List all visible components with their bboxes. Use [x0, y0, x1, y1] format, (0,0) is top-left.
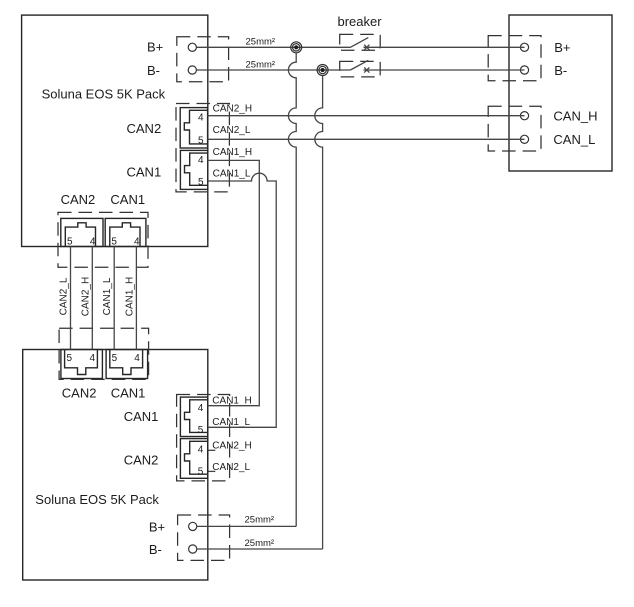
wire B+ pack1 to breaker: [196, 46, 350, 48]
wire B- vertical pack2 with hops: [315, 75, 323, 549]
svg-text:25mm²: 25mm²: [245, 538, 275, 549]
pack2 B+/B- dashed box: [178, 515, 230, 560]
pack1 bottom jack CAN2 outer: [61, 218, 103, 246]
wire CAN_H pack1 to inverter: [208, 115, 525, 117]
svg-text:CAN2: CAN2: [61, 192, 96, 207]
svg-text:CAN1_H: CAN1_H: [124, 277, 135, 316]
breaker switch S2 blade: [350, 60, 368, 70]
pack2 top jack CAN1 outer: [106, 350, 148, 379]
svg-text:CAN2_L: CAN2_L: [212, 462, 250, 473]
svg-text:25mm²: 25mm²: [246, 36, 276, 47]
pack2 CAN2 jack inner: [185, 441, 208, 474]
pack2 top jack CAN2 outer: [61, 350, 103, 379]
svg-text:Soluna EOS 5K Pack: Soluna EOS 5K Pack: [42, 87, 166, 102]
svg-text:4: 4: [198, 403, 204, 414]
pack1 CAN2 jack J1 inner: [184, 110, 207, 144]
wire CAN2_L stub pack2: [208, 470, 215, 472]
svg-text:CAN1: CAN1: [124, 409, 159, 424]
svg-text:5: 5: [198, 177, 204, 188]
svg-text:CAN2: CAN2: [124, 453, 159, 468]
svg-text:4: 4: [198, 155, 204, 166]
svg-text:CAN1_H: CAN1_H: [213, 147, 252, 158]
svg-text:4: 4: [134, 237, 140, 248]
wire CAN1_L link pack1 to pack2 with hop: [208, 173, 277, 427]
wire B+ vertical pack2 with hops: [288, 53, 296, 527]
svg-text:5: 5: [198, 135, 204, 146]
svg-text:B-: B-: [149, 542, 162, 557]
svg-text:CAN1_L: CAN1_L: [212, 417, 250, 428]
wire CAN2_H stub pack2: [208, 449, 215, 451]
inverter B- terminal: [520, 66, 528, 74]
svg-text:B+: B+: [149, 519, 165, 534]
svg-text:5: 5: [67, 237, 73, 248]
pack2 CAN1 jack inner: [185, 400, 208, 433]
svg-text:CAN1_L: CAN1_L: [102, 277, 113, 315]
inverter B+/B- dashed box: [488, 36, 541, 81]
wire B- pack2 horizontal: [197, 548, 323, 550]
svg-text:25mm²: 25mm²: [245, 515, 275, 526]
pack1 CAN1 jack J2 inner: [185, 153, 208, 185]
svg-text:B-: B-: [554, 63, 567, 78]
svg-text:B+: B+: [554, 40, 570, 55]
pack1 bottom jack CAN1 outer: [105, 218, 146, 246]
svg-text:5: 5: [111, 237, 117, 248]
pack2 CAN jacks dashed box: [177, 395, 230, 481]
svg-text:CAN2_H: CAN2_H: [80, 277, 91, 316]
wire B- pack1 to breaker: [196, 69, 350, 71]
svg-text:CAN1: CAN1: [127, 164, 162, 179]
pack1 B- terminal: [188, 66, 196, 74]
svg-text:4: 4: [134, 353, 140, 364]
inverter box: [509, 15, 612, 171]
svg-text:breaker: breaker: [338, 14, 383, 29]
wire B+ pack2 horizontal: [197, 525, 296, 527]
wire CAN_L pack1 to inverter: [208, 138, 525, 140]
breaker switch S1 x-contact: [364, 45, 369, 50]
wire B- breaker to inverter: [364, 69, 525, 71]
svg-text:CAN2_L: CAN2_L: [213, 125, 251, 136]
junction J-B+ connector bullseye: [291, 42, 302, 53]
wire CAN1_H link pack1 to pack2: [208, 160, 260, 405]
pack2 top jack CAN1 inner: [110, 350, 143, 375]
svg-text:CAN_L: CAN_L: [553, 132, 595, 147]
svg-text:CAN2_L: CAN2_L: [59, 277, 70, 315]
pack1 bottom jack CAN1 inner: [110, 223, 140, 247]
svg-text:5: 5: [67, 353, 73, 364]
pack2 CAN1 jack outer: [180, 397, 207, 436]
pack1 CAN jacks dashed box: [176, 104, 229, 192]
pack1 bottom jack CAN2 inner: [65, 223, 95, 247]
pack2 CAN2 jack outer: [180, 439, 207, 479]
breaker switch S1 blade: [350, 38, 368, 48]
svg-text:B+: B+: [147, 40, 163, 55]
svg-text:CAN2_H: CAN2_H: [212, 440, 251, 451]
pack1 bottom jacks dashed box: [58, 212, 148, 267]
svg-text:Soluna EOS 5K Pack: Soluna EOS 5K Pack: [35, 492, 159, 507]
svg-text:5: 5: [198, 425, 204, 436]
wire CAN2_L between packs: [70, 247, 72, 350]
svg-text:CAN1: CAN1: [110, 192, 145, 207]
battery pack 2 (bottom) box: [23, 350, 208, 581]
battery pack 1 (top) box: [22, 15, 208, 246]
svg-text:CAN1_L: CAN1_L: [213, 168, 251, 179]
svg-text:4: 4: [90, 353, 96, 364]
pack2 top jacks dashed box: [59, 328, 149, 379]
pack1 CAN1 jack J2 outer: [180, 150, 207, 189]
svg-text:CAN2: CAN2: [127, 121, 162, 136]
inverter CAN dashed box: [488, 106, 541, 151]
breaker dashed box (B+ pole): [340, 34, 381, 50]
wire B+ breaker to inverter: [364, 46, 525, 48]
junction J-B- connector bullseye: [317, 65, 328, 76]
wire CAN1_L between packs: [113, 247, 115, 350]
pack2 B+ terminal: [189, 522, 197, 530]
svg-text:4: 4: [198, 112, 204, 123]
svg-text:4: 4: [198, 444, 204, 455]
inverter B+ terminal: [520, 43, 528, 51]
svg-text:CAN2: CAN2: [62, 386, 97, 401]
svg-text:5: 5: [198, 466, 204, 477]
breaker switch S2 x-contact: [364, 67, 369, 72]
svg-text:4: 4: [90, 237, 96, 248]
svg-text:CAN_H: CAN_H: [553, 108, 597, 123]
wire CAN2_H between packs: [91, 247, 93, 350]
pack1 B+ terminal: [188, 43, 196, 51]
svg-text:B-: B-: [147, 63, 160, 78]
svg-text:25mm²: 25mm²: [246, 59, 276, 70]
inverter CAN_L terminal: [520, 135, 528, 143]
pack1 CAN2 jack J1 outer: [180, 108, 207, 148]
pack2 top jack CAN2 inner: [65, 350, 98, 375]
pack2 B- terminal: [189, 545, 197, 553]
pack1 B+/B- dashed box: [177, 37, 229, 82]
svg-text:CAN1: CAN1: [111, 386, 146, 401]
wire CAN1_H between packs: [135, 247, 137, 350]
breaker dashed box (B- pole): [340, 61, 381, 77]
inverter CAN_H terminal: [520, 112, 528, 120]
svg-text:5: 5: [112, 353, 118, 364]
svg-text:CAN2_H: CAN2_H: [213, 104, 252, 115]
